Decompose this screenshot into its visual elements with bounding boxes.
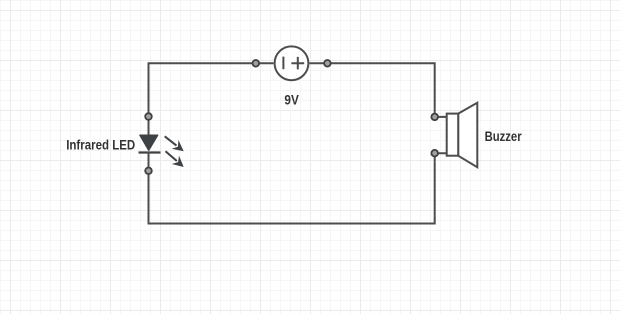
buzzer LS1 stubs bbox=[435, 117, 447, 153]
LED emission arrow 2 bbox=[162, 147, 187, 171]
LED D1 anode lead bbox=[148, 117, 150, 136]
wire: buzzer bottom terminal down, across bottom, up to LED bottom terminal bbox=[149, 153, 435, 223]
svg-text:Infrared LED: Infrared LED bbox=[66, 137, 135, 153]
LED D1 cathode lead bbox=[148, 153, 150, 171]
terminal: battery left bbox=[253, 60, 260, 67]
LED D1 cathode bar bbox=[139, 151, 161, 153]
LED D1 triangle bbox=[140, 135, 158, 150]
svg-text:Buzzer: Buzzer bbox=[485, 129, 523, 144]
buzzer LS1 horn bbox=[458, 103, 477, 168]
battery plus pin mark bbox=[291, 57, 304, 70]
terminal: LED bottom bbox=[145, 168, 152, 175]
buzzer LS1 body rect bbox=[447, 114, 459, 156]
terminal: buzzer top bbox=[431, 114, 438, 121]
battery minus pin mark bbox=[282, 57, 284, 70]
terminal: battery right bbox=[324, 60, 331, 67]
wire: top-left (LED top terminal up, across to battery) bbox=[149, 63, 274, 116]
wire: battery right to top-right corner down to buzzer top terminal bbox=[310, 63, 435, 117]
terminal: LED top bbox=[145, 113, 152, 120]
LED emission arrow 1 bbox=[161, 132, 187, 156]
battery U1 (9V) body bbox=[275, 46, 309, 80]
terminal: buzzer bottom bbox=[431, 150, 438, 157]
svg-text:9V: 9V bbox=[284, 93, 298, 108]
